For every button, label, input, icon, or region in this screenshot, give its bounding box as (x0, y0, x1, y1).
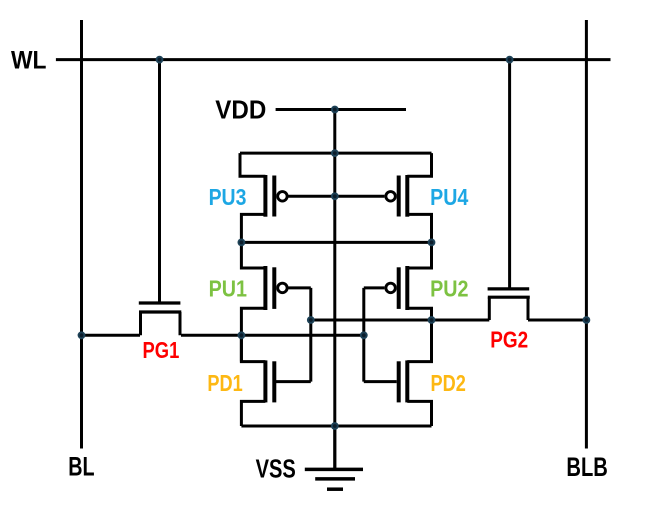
svg-text:PD1: PD1 (207, 370, 242, 396)
wire middle rail (PU3/PU4 drains to PU1/PU2 sources) (241, 241, 431, 244)
wire WL (word line) (56, 58, 611, 61)
svg-text:PD2: PD2 (431, 370, 466, 396)
junction WL-PG1 gate (156, 56, 164, 64)
wire node Q horizontal (BL/PG1 to PU2-PD2 gates) (82, 334, 364, 337)
junction node QB right rail (428, 316, 436, 324)
wire PG2 gate lead from WL (508, 60, 511, 288)
transistor PD2 (NMOS) (364, 335, 432, 426)
junction middle rail right (428, 239, 436, 247)
junction VDD stub (331, 106, 339, 114)
ground symbol VSS (305, 426, 363, 489)
junction PU3/PU4 gate node (331, 192, 339, 200)
wire node QB horizontal (PU1-PD1 gates to PG2/BLB) (311, 319, 587, 322)
wire center column VDD to VSS (333, 110, 336, 470)
svg-text:WL: WL (11, 47, 47, 75)
transistor PU1 (PMOS) (241, 242, 310, 361)
svg-text:BLB: BLB (566, 452, 607, 482)
wire bottom rail (PD1/PD2 sources to VSS) (241, 425, 431, 428)
transistor PU2 (PMOS) (364, 242, 432, 361)
svg-text:BL: BL (68, 451, 94, 481)
junction bottom rail VSS (331, 422, 339, 430)
wire PG1 gate lead from WL (158, 60, 161, 302)
junction node Q at BL (78, 331, 86, 339)
wire BL (left bit line) (80, 20, 83, 449)
svg-text:VDD: VDD (215, 95, 266, 125)
wire VDD stub (276, 108, 406, 111)
svg-text:PG1: PG1 (143, 337, 180, 363)
svg-text:PU3: PU3 (209, 184, 247, 210)
junction WL-PG2 gate (506, 56, 514, 64)
transistor PU3 (PMOS) (240, 153, 335, 242)
junction node Q left rail (238, 331, 246, 339)
wire PU1/PD1 gate tap vertical at node QB (309, 288, 312, 382)
junction top rail center (331, 149, 339, 157)
svg-text:PG2: PG2 (490, 326, 528, 352)
svg-text:VSS: VSS (256, 456, 296, 484)
svg-text:PU4: PU4 (430, 184, 468, 210)
junction node QB at BLB (583, 316, 591, 324)
junction middle rail left (238, 239, 246, 247)
svg-text:PU2: PU2 (430, 275, 468, 301)
junction node QB left tap (307, 316, 315, 324)
transistor PU4 (PMOS) (335, 153, 432, 242)
transistor PD1 (NMOS) (241, 335, 310, 426)
svg-text:PU1: PU1 (209, 275, 248, 301)
transistor PG1 (NMOS pass gate) (139, 303, 182, 335)
junction node Q right tap (360, 331, 368, 339)
wire top rail (PU3/PU4 sources) (240, 152, 432, 155)
wire PU2/PD2 gate tap vertical at node Q (362, 288, 365, 382)
wire BLB (right bit line) (585, 20, 588, 449)
transistor PG2 (NMOS pass gate) (488, 289, 530, 320)
